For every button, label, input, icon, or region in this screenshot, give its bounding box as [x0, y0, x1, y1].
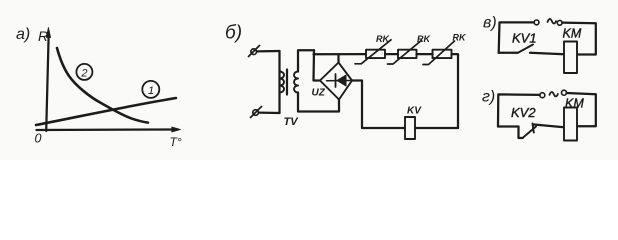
- input terminal top: [251, 49, 257, 55]
- svg-text:в): в): [483, 15, 497, 32]
- wire: secondary bottom lead: [298, 93, 339, 112]
- wire: rail between RK2 and RK3: [417, 53, 433, 55]
- svg-text:1: 1: [148, 85, 154, 97]
- wire: drop to bridge left vertex: [314, 50, 320, 80]
- svg-text:UZ: UZ: [312, 88, 326, 99]
- circled label 1: [142, 81, 159, 98]
- thermistor RK3 slash: [423, 41, 455, 65]
- wire: secondary right lead top: [298, 50, 314, 71]
- bridge diode symbol: [327, 80, 351, 82]
- thermistor RK1 body: [366, 50, 385, 58]
- svg-text:0: 0: [35, 132, 42, 146]
- thermistor RK1 slash: [355, 40, 391, 64]
- wire: top terminal to primary: [257, 50, 280, 53]
- curve 2 (falling): [57, 48, 148, 123]
- contactor coil KM (panel в): [564, 42, 577, 74]
- svg-text:KM: KM: [565, 97, 584, 111]
- bridge rectifier UZ diamond: [320, 63, 352, 100]
- wire: primary bottom to bottom terminal: [259, 111, 280, 114]
- AC tilde: [548, 19, 557, 23]
- transformer TV secondary winding: [294, 72, 298, 93]
- svg-text:г): г): [482, 89, 495, 106]
- thermistor RK2 body: [398, 50, 417, 58]
- x-axis: [37, 128, 174, 131]
- svg-text:TV: TV: [284, 116, 300, 128]
- wire: rail between RK1 and RK2: [385, 53, 398, 55]
- wire: top rail to first thermistor: [314, 53, 367, 55]
- curve 1 (rising): [36, 98, 176, 125]
- svg-text:KM: KM: [563, 27, 582, 41]
- transformer TV core: [286, 70, 288, 95]
- y-axis: [46, 37, 48, 131]
- relay coil KV: [405, 117, 415, 139]
- svg-text:KV: KV: [407, 106, 422, 117]
- contact KV2 (NC): [498, 127, 523, 139]
- thermistor RK3 body: [433, 50, 452, 58]
- panel г top rail with AC source: [498, 94, 540, 126]
- contactor coil KM (panel г): [564, 108, 577, 141]
- svg-text:KV1: KV1: [512, 31, 537, 46]
- AC tilde: [550, 92, 558, 96]
- svg-text:RK: RK: [453, 32, 467, 42]
- wire: bridge right vertex down to bottom rail: [352, 81, 405, 129]
- svg-text:T°: T°: [170, 135, 182, 149]
- panel в top rail with AC source: [499, 22, 534, 52]
- svg-text:а): а): [16, 26, 30, 43]
- wire: stub to bridge top vertex: [337, 54, 339, 62]
- svg-text:KV2: KV2: [511, 105, 536, 120]
- svg-text:RK: RK: [376, 34, 390, 44]
- contact KV1: [499, 52, 518, 54]
- wire: primary left lead: [278, 51, 280, 113]
- svg-text:RK: RK: [417, 34, 431, 44]
- svg-text:2: 2: [80, 67, 87, 79]
- thermistor RK2 slash: [388, 40, 422, 64]
- circled label 2: [76, 64, 92, 80]
- svg-text:б): б): [225, 23, 242, 44]
- transformer TV primary winding: [280, 72, 285, 93]
- wire: rail right corner down: [415, 54, 458, 128]
- input terminal bottom: [253, 110, 259, 116]
